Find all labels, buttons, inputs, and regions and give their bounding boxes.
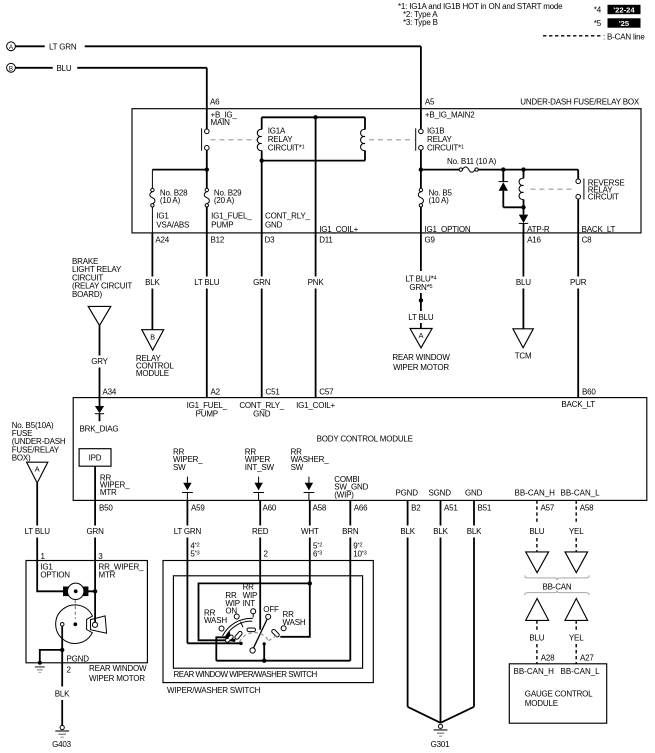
svg-text:BLK: BLK bbox=[55, 690, 70, 699]
wire end overdraw LT GRN bbox=[237, 642, 243, 645]
wire LT GRN into switch rotor bbox=[187, 642, 241, 644]
svg-text:BRK_DIAG: BRK_DIAG bbox=[80, 424, 119, 433]
label RR WASH (left) bbox=[204, 608, 227, 625]
wire RED A60 to switch bbox=[252, 500, 269, 629]
contact RR WIP INT bbox=[251, 609, 256, 618]
connector A to REAR WINDOW WIPER MOTOR bbox=[410, 329, 432, 348]
legend note *4 year box '22-24 bbox=[594, 5, 641, 15]
wire BRN A66 to switch common bbox=[342, 500, 359, 660]
park switch fixed contact bbox=[60, 623, 64, 627]
svg-text:LT BLU: LT BLU bbox=[408, 313, 434, 322]
connector BB-CAN_L up bbox=[565, 599, 588, 621]
net RR_WIPER_MTR label bbox=[99, 563, 145, 580]
svg-text:SW: SW bbox=[291, 463, 304, 472]
IPD box bbox=[79, 449, 111, 467]
moving contact arc RR WIP ON bbox=[223, 618, 253, 638]
wire BLK A24 to relay control module bbox=[145, 233, 160, 330]
svg-text:B12: B12 bbox=[211, 236, 225, 245]
fuse No. B11 (10 A) bbox=[447, 157, 497, 172]
chassis ground at motor case bbox=[35, 661, 45, 673]
pin 4*2 5*3 label bbox=[190, 542, 199, 559]
net COMBI SW_GND (WIP) label bbox=[334, 475, 368, 499]
relay contact IG1A on A6 feed bbox=[202, 109, 210, 170]
svg-text:GND: GND bbox=[465, 489, 483, 498]
svg-text:GRN: GRN bbox=[87, 527, 105, 536]
connector BB-CAN_H down bbox=[526, 552, 549, 573]
net +B_IG_MAIN label bbox=[211, 111, 238, 128]
diode BRK_DIAG bbox=[95, 398, 104, 422]
ground G403 bbox=[52, 725, 72, 749]
svg-text:B60: B60 bbox=[582, 388, 596, 397]
REAR WINDOW WIPER MOTOR box outline bbox=[26, 561, 147, 663]
svg-text:A6: A6 bbox=[210, 98, 220, 107]
svg-text:C8: C8 bbox=[582, 236, 593, 245]
svg-text:PUMP: PUMP bbox=[196, 410, 218, 419]
contact RR WASH right bbox=[281, 626, 286, 631]
svg-text:TCM: TCM bbox=[515, 352, 532, 361]
svg-text:GAUGE CONTROL: GAUGE CONTROL bbox=[525, 690, 593, 699]
contact RR WIP ON bbox=[234, 614, 239, 619]
svg-text:REAR WINDOW: REAR WINDOW bbox=[89, 664, 147, 673]
svg-text:CIRCUIT: CIRCUIT bbox=[588, 193, 619, 202]
relay contact REVERSE RELAY CIRCUIT bbox=[576, 170, 584, 233]
dashed actuator link coil to IG1B contact bbox=[369, 139, 415, 141]
svg-text:A58: A58 bbox=[313, 504, 327, 513]
node junction diode branch bbox=[501, 167, 505, 171]
svg-text:B: B bbox=[9, 66, 13, 73]
dashed motor shaft link bbox=[74, 600, 76, 619]
node junction PGND branch bbox=[60, 648, 64, 652]
svg-text:MTR: MTR bbox=[100, 488, 117, 497]
svg-text:BLU: BLU bbox=[529, 633, 544, 642]
IG1A/IG1B relay coil frame bbox=[262, 117, 365, 160]
REAR WINDOW WIPER MOTOR label bbox=[89, 664, 147, 683]
svg-text:MODULE: MODULE bbox=[525, 699, 558, 708]
switch sense RR_WIPER_SW (arrow) bbox=[182, 477, 193, 501]
relay coil IG1A (left) bbox=[257, 129, 261, 150]
wire LT BLU B12 to A2 bbox=[194, 233, 220, 398]
svg-text:SGND: SGND bbox=[429, 489, 452, 498]
wire WHT A58 to switch bbox=[301, 500, 319, 583]
wire BLU A16 to TCM bbox=[516, 233, 531, 329]
brace under connectors bbox=[525, 575, 589, 580]
BODY CONTROL MODULE outline bbox=[73, 398, 647, 501]
svg-text:LT BLU: LT BLU bbox=[25, 527, 51, 536]
svg-text:C57: C57 bbox=[319, 388, 334, 397]
GAUGE CONTROL MODULE box bbox=[509, 664, 606, 723]
wire BLK pin2 to G403 bbox=[55, 663, 70, 726]
node junction coil branch bbox=[521, 167, 525, 171]
BRAKE LIGHT RELAY CIRCUIT label bbox=[72, 257, 132, 299]
wire end overdraw common left bbox=[223, 636, 229, 639]
rotor arm OFF position bbox=[253, 619, 267, 648]
legend note *5 year box '25 bbox=[594, 18, 641, 28]
wire B11 branch bbox=[421, 169, 459, 171]
svg-text:IG1: IG1 bbox=[156, 212, 169, 221]
svg-text:WASH: WASH bbox=[283, 618, 306, 627]
motor M rear wiper bbox=[63, 583, 88, 599]
svg-text:PNK: PNK bbox=[308, 278, 325, 287]
svg-text:D3: D3 bbox=[265, 236, 276, 245]
svg-text:MTR: MTR bbox=[99, 571, 116, 580]
contact RR WASH left bbox=[219, 626, 224, 631]
wire PNK D11 to C57 bbox=[308, 233, 325, 398]
svg-text:LT GRN: LT GRN bbox=[174, 527, 202, 536]
svg-text:B2: B2 bbox=[411, 504, 421, 513]
dashed actuator link reverse coil to contact bbox=[531, 188, 575, 190]
IG1A RELAY CIRCUIT label bbox=[268, 127, 305, 153]
wire LT GRN from node A to +B_IG_MAIN2 bbox=[16, 42, 421, 109]
svg-text:IG1_OPTION: IG1_OPTION bbox=[425, 225, 471, 234]
contact slot int bbox=[247, 628, 256, 632]
svg-text:'25: '25 bbox=[619, 19, 630, 28]
net IG1 VSA/ABS label bbox=[156, 212, 189, 230]
svg-text:IG1_COIL+: IG1_COIL+ bbox=[296, 401, 335, 410]
svg-text:*4: *4 bbox=[594, 6, 602, 15]
label RR WASH (right) bbox=[283, 610, 306, 627]
switch sense RR_WIPER_INT_SW (arrow) bbox=[253, 477, 264, 501]
svg-text:IG1_FUEL_: IG1_FUEL_ bbox=[211, 212, 252, 221]
svg-text:UNDER-DASH FUSE/RELAY BOX: UNDER-DASH FUSE/RELAY BOX bbox=[520, 98, 640, 107]
svg-text:A2: A2 bbox=[211, 388, 221, 397]
svg-text:GRY: GRY bbox=[91, 357, 108, 366]
legend B-CAN line key bbox=[543, 32, 645, 41]
svg-text:BLK: BLK bbox=[400, 527, 415, 536]
IG1B RELAY CIRCUIT label bbox=[427, 127, 464, 153]
svg-text:ATP-R: ATP-R bbox=[527, 225, 550, 234]
node junction B11 branch bbox=[419, 167, 423, 171]
wire G9 branch LT BLU*4 GRN*5 bbox=[405, 233, 436, 311]
wire pin3 down to park switch contact bbox=[94, 591, 96, 623]
wire BLK A51 to G301 bbox=[433, 500, 448, 722]
svg-text:WHT: WHT bbox=[301, 527, 319, 536]
svg-text:MODULE: MODULE bbox=[136, 369, 169, 378]
wire GRY to A34 bbox=[91, 326, 108, 398]
svg-text:LT GRN: LT GRN bbox=[49, 42, 77, 51]
connector A from fuse feed bbox=[27, 462, 48, 483]
net RR_WIPER_INT_SW label bbox=[245, 448, 275, 472]
svg-text:BODY CONTROL MODULE: BODY CONTROL MODULE bbox=[317, 434, 413, 443]
svg-text:MAIN: MAIN bbox=[211, 118, 231, 127]
svg-text:A51: A51 bbox=[444, 504, 458, 513]
node junction coil- / diode bbox=[521, 205, 525, 209]
svg-text:WASH: WASH bbox=[204, 616, 227, 625]
relay contact IG1B on A5 feed bbox=[416, 109, 424, 170]
svg-text:'22-24: '22-24 bbox=[613, 5, 635, 14]
brace over connectors bbox=[525, 591, 589, 596]
connector from brake light relay circuit bbox=[88, 306, 111, 325]
svg-text:GRN*5: GRN*5 bbox=[409, 283, 432, 292]
label RR WIP INT bbox=[243, 583, 258, 608]
diode to ATP-R (cathode down) bbox=[519, 207, 528, 233]
svg-text:G9: G9 bbox=[425, 236, 436, 245]
UNDER-DASH FUSE/RELAY BOX outline bbox=[132, 109, 641, 233]
wire riser to moving contact bbox=[263, 644, 265, 661]
svg-text:BLK: BLK bbox=[433, 527, 448, 536]
net CONT_RLY_GND label bbox=[265, 212, 310, 230]
node junction at motor brush bbox=[93, 589, 97, 593]
svg-text:B50: B50 bbox=[99, 504, 113, 513]
wire BB-CAN_H A57 dashed BLU bbox=[529, 500, 544, 552]
node junction WHT corner bbox=[308, 581, 312, 585]
REAR WINDOW WIPER MOTOR label (upper) bbox=[392, 353, 450, 372]
svg-text:YEL: YEL bbox=[569, 527, 584, 536]
RELAY CONTROL MODULE label bbox=[136, 354, 174, 378]
svg-text:RED: RED bbox=[252, 527, 269, 536]
wire common bottom BRN bbox=[216, 660, 350, 662]
fuse No. B29 (20 A) bbox=[204, 170, 242, 233]
svg-text:BB-CAN_H: BB-CAN_H bbox=[515, 489, 556, 498]
wire IG1_COIL+ D11 bbox=[315, 117, 317, 233]
wire BLU from node B to +B_IG_MAIN bbox=[16, 64, 207, 109]
wire BLU dashed to gauge A28 bbox=[529, 620, 544, 663]
wire LT BLU to rear wiper motor connector bbox=[408, 313, 434, 329]
switch sense RR_WASHER_SW (arrow) bbox=[304, 477, 315, 501]
svg-text:OPTION: OPTION bbox=[40, 571, 70, 580]
svg-text:BLK: BLK bbox=[145, 278, 160, 287]
pin 9*2 10*3 label bbox=[353, 542, 366, 559]
svg-text:BOARD): BOARD) bbox=[72, 290, 102, 299]
svg-text:BRN: BRN bbox=[342, 527, 359, 536]
svg-text:IG1_COIL+: IG1_COIL+ bbox=[319, 225, 358, 234]
svg-text:B: B bbox=[150, 333, 155, 342]
svg-text:A28: A28 bbox=[541, 653, 555, 662]
svg-text:A27: A27 bbox=[580, 653, 594, 662]
wire BB-CAN_L A58 dashed YEL bbox=[569, 500, 584, 552]
svg-text:INT_SW: INT_SW bbox=[245, 463, 275, 472]
svg-text:PGND: PGND bbox=[396, 489, 419, 498]
contact OFF bbox=[266, 614, 271, 619]
svg-text:BB-CAN_L: BB-CAN_L bbox=[561, 667, 601, 676]
ground G301 bbox=[431, 724, 451, 749]
dashed linkage arcs bbox=[240, 633, 279, 642]
svg-text:VSA/ABS: VSA/ABS bbox=[156, 220, 189, 229]
wire pin1 to motor brush bbox=[37, 561, 63, 592]
fuse No. B28 (10 A) bbox=[150, 188, 188, 233]
svg-text:A59: A59 bbox=[191, 504, 205, 513]
wire end overdraw WHT left bbox=[230, 639, 236, 642]
svg-text:BLU: BLU bbox=[529, 527, 544, 536]
wire WHT feed across switch top bbox=[199, 583, 310, 640]
svg-text:INT: INT bbox=[243, 599, 256, 608]
svg-text:WIPER MOTOR: WIPER MOTOR bbox=[393, 363, 449, 372]
contact slot wip on bbox=[234, 631, 243, 640]
svg-text:*5: *5 bbox=[594, 19, 602, 28]
net RR_WASHER_SW label bbox=[291, 448, 330, 472]
svg-text:*3: Type B: *3: Type B bbox=[403, 18, 438, 27]
svg-text:BLU: BLU bbox=[516, 278, 531, 287]
svg-text:YEL: YEL bbox=[569, 633, 584, 642]
park switch cam plate bbox=[56, 605, 93, 644]
svg-text:A58: A58 bbox=[580, 504, 594, 513]
svg-text:A66: A66 bbox=[354, 504, 368, 513]
net CONT_RLY_GND (BCM) label bbox=[239, 401, 284, 419]
label RR WIP ON bbox=[225, 591, 240, 616]
svg-text:A57: A57 bbox=[541, 504, 555, 513]
wire pin3 to motor brush bbox=[88, 561, 95, 592]
wire B11 fuse to reverse relay bbox=[478, 169, 578, 171]
contact slot right wash bbox=[271, 629, 280, 638]
node B circled bbox=[7, 63, 16, 72]
wire WHT down right side to RR WASH segment bbox=[280, 583, 310, 636]
svg-text:BB-CAN: BB-CAN bbox=[542, 582, 571, 591]
svg-text:(WIP): (WIP) bbox=[334, 490, 354, 499]
REVERSE RELAY CIRCUIT label bbox=[588, 179, 625, 202]
svg-text:LT BLU: LT BLU bbox=[194, 278, 220, 287]
svg-text:3: 3 bbox=[98, 552, 103, 561]
svg-text:CIRCUIT*1: CIRCUIT*1 bbox=[427, 144, 464, 153]
wire junction to B28 fuse branch bbox=[152, 170, 206, 189]
svg-text:No. B11 (10 A): No. B11 (10 A) bbox=[447, 157, 497, 166]
wire LT GRN A59 to switch bbox=[174, 500, 202, 643]
svg-text:GND: GND bbox=[265, 220, 283, 229]
svg-text:A: A bbox=[419, 331, 424, 340]
REAR WINDOW WIPER/WASHER SWITCH box bbox=[173, 576, 362, 668]
svg-text:PGND: PGND bbox=[67, 655, 90, 664]
svg-text:IPD: IPD bbox=[89, 454, 102, 463]
wire BLK B2 to G301 bbox=[400, 500, 440, 722]
diode clamp (cathode up) bbox=[499, 170, 524, 208]
wire IPD to pin B50 bbox=[94, 466, 96, 500]
net RR_WIPER_MTR label bbox=[100, 473, 130, 496]
connector BB-CAN_H up bbox=[526, 599, 549, 621]
svg-text:GND: GND bbox=[253, 410, 271, 419]
svg-text:REAR WINDOW: REAR WINDOW bbox=[392, 353, 450, 362]
net RR_WIPER_SW label bbox=[173, 448, 203, 472]
wire park contact to PGND bbox=[61, 627, 63, 664]
node junction coil- to CONT_RLY_GND bbox=[260, 158, 264, 162]
WIPER/WASHER SWITCH outer box bbox=[163, 561, 373, 683]
svg-text:BOX): BOX) bbox=[12, 454, 31, 463]
svg-text:BLK: BLK bbox=[467, 527, 482, 536]
node top of riser bbox=[263, 642, 266, 645]
svg-text:+B_IG_MAIN2: +B_IG_MAIN2 bbox=[425, 111, 475, 120]
svg-text:(10 A): (10 A) bbox=[429, 196, 450, 205]
node junction on common bottom bbox=[262, 659, 266, 663]
wire YEL dashed to gauge A27 bbox=[569, 620, 584, 663]
relay coil IG1B (right) bbox=[361, 129, 365, 150]
svg-text:C51: C51 bbox=[266, 388, 281, 397]
svg-text:CONT_RLY_: CONT_RLY_ bbox=[265, 212, 310, 221]
net IG1 OPTION label bbox=[40, 563, 70, 580]
wire to chassis ground inside motor bbox=[40, 650, 62, 662]
svg-text:BACK_LT: BACK_LT bbox=[582, 225, 616, 234]
svg-text:A16: A16 bbox=[527, 236, 541, 245]
connector B to RELAY CONTROL MODULE bbox=[142, 330, 164, 350]
node splice on G9 wire bbox=[419, 298, 423, 302]
wire CONT_RLY_GND D3 bbox=[261, 161, 263, 233]
park switch moving plate bbox=[91, 616, 107, 633]
net IG1_FUEL_PUMP label bbox=[211, 212, 252, 230]
reverse relay coil bbox=[519, 170, 523, 208]
svg-text:PUMP: PUMP bbox=[211, 220, 233, 229]
svg-text:G301: G301 bbox=[431, 740, 451, 749]
rotor pivot bbox=[250, 648, 255, 653]
node junction on A6 feed bbox=[205, 167, 209, 171]
svg-text:BB-CAN_H: BB-CAN_H bbox=[514, 667, 555, 676]
wire GRN D3 to C51 bbox=[253, 233, 271, 398]
wire LT BLU to wiper motor pin 1 bbox=[25, 483, 51, 561]
dashed actuator link IG1A contact to coil bbox=[211, 139, 258, 141]
node junction coil+ to IG1_COIL+ bbox=[313, 115, 317, 119]
svg-text:BLU: BLU bbox=[57, 64, 72, 73]
svg-text:A5: A5 bbox=[425, 98, 435, 107]
pin 5*2 6*3 label bbox=[313, 542, 322, 559]
connector BB-CAN_L down bbox=[565, 552, 588, 573]
svg-text:B51: B51 bbox=[478, 504, 492, 513]
svg-text:WIPER/WASHER SWITCH: WIPER/WASHER SWITCH bbox=[167, 686, 261, 695]
net IG1_FUEL_PUMP (BCM) label bbox=[187, 401, 228, 419]
svg-text:A60: A60 bbox=[263, 504, 277, 513]
wire common left branch bbox=[216, 637, 227, 660]
svg-text:A: A bbox=[35, 465, 40, 474]
svg-text:BACK_LT: BACK_LT bbox=[561, 400, 595, 409]
svg-text:G403: G403 bbox=[52, 740, 72, 749]
svg-text:: B-CAN line: : B-CAN line bbox=[603, 32, 645, 41]
svg-text:OFF: OFF bbox=[263, 605, 279, 614]
svg-text:BB-CAN_L: BB-CAN_L bbox=[561, 489, 601, 498]
svg-text:D11: D11 bbox=[319, 236, 333, 245]
wire BLK B51 to G301 bbox=[441, 500, 483, 722]
svg-text:(10 A): (10 A) bbox=[160, 196, 181, 205]
park switch moving contact bbox=[92, 622, 97, 627]
wire GRN B50 to wiper motor pin 3 bbox=[87, 500, 105, 560]
svg-text:A24: A24 bbox=[155, 236, 169, 245]
svg-text:PUR: PUR bbox=[570, 278, 587, 287]
contact slot left wash bbox=[225, 634, 234, 643]
No. B5 fuse source label bbox=[12, 421, 66, 463]
svg-text:GRN: GRN bbox=[253, 278, 271, 287]
svg-text:A34: A34 bbox=[103, 388, 117, 397]
svg-text:REAR WINDOW WIPER/WASHER SWITC: REAR WINDOW WIPER/WASHER SWITCH bbox=[174, 670, 318, 679]
connector to TCM bbox=[513, 329, 533, 348]
svg-text:CIRCUIT*1: CIRCUIT*1 bbox=[268, 144, 305, 153]
fuse No. B5 (10 A) bbox=[418, 170, 452, 233]
svg-text:(20 A): (20 A) bbox=[214, 196, 235, 205]
wire PUR C8 to B60 bbox=[570, 233, 587, 398]
svg-text:WIPER MOTOR: WIPER MOTOR bbox=[89, 674, 145, 683]
node A circled bbox=[7, 42, 16, 51]
svg-text:SW: SW bbox=[173, 463, 186, 472]
